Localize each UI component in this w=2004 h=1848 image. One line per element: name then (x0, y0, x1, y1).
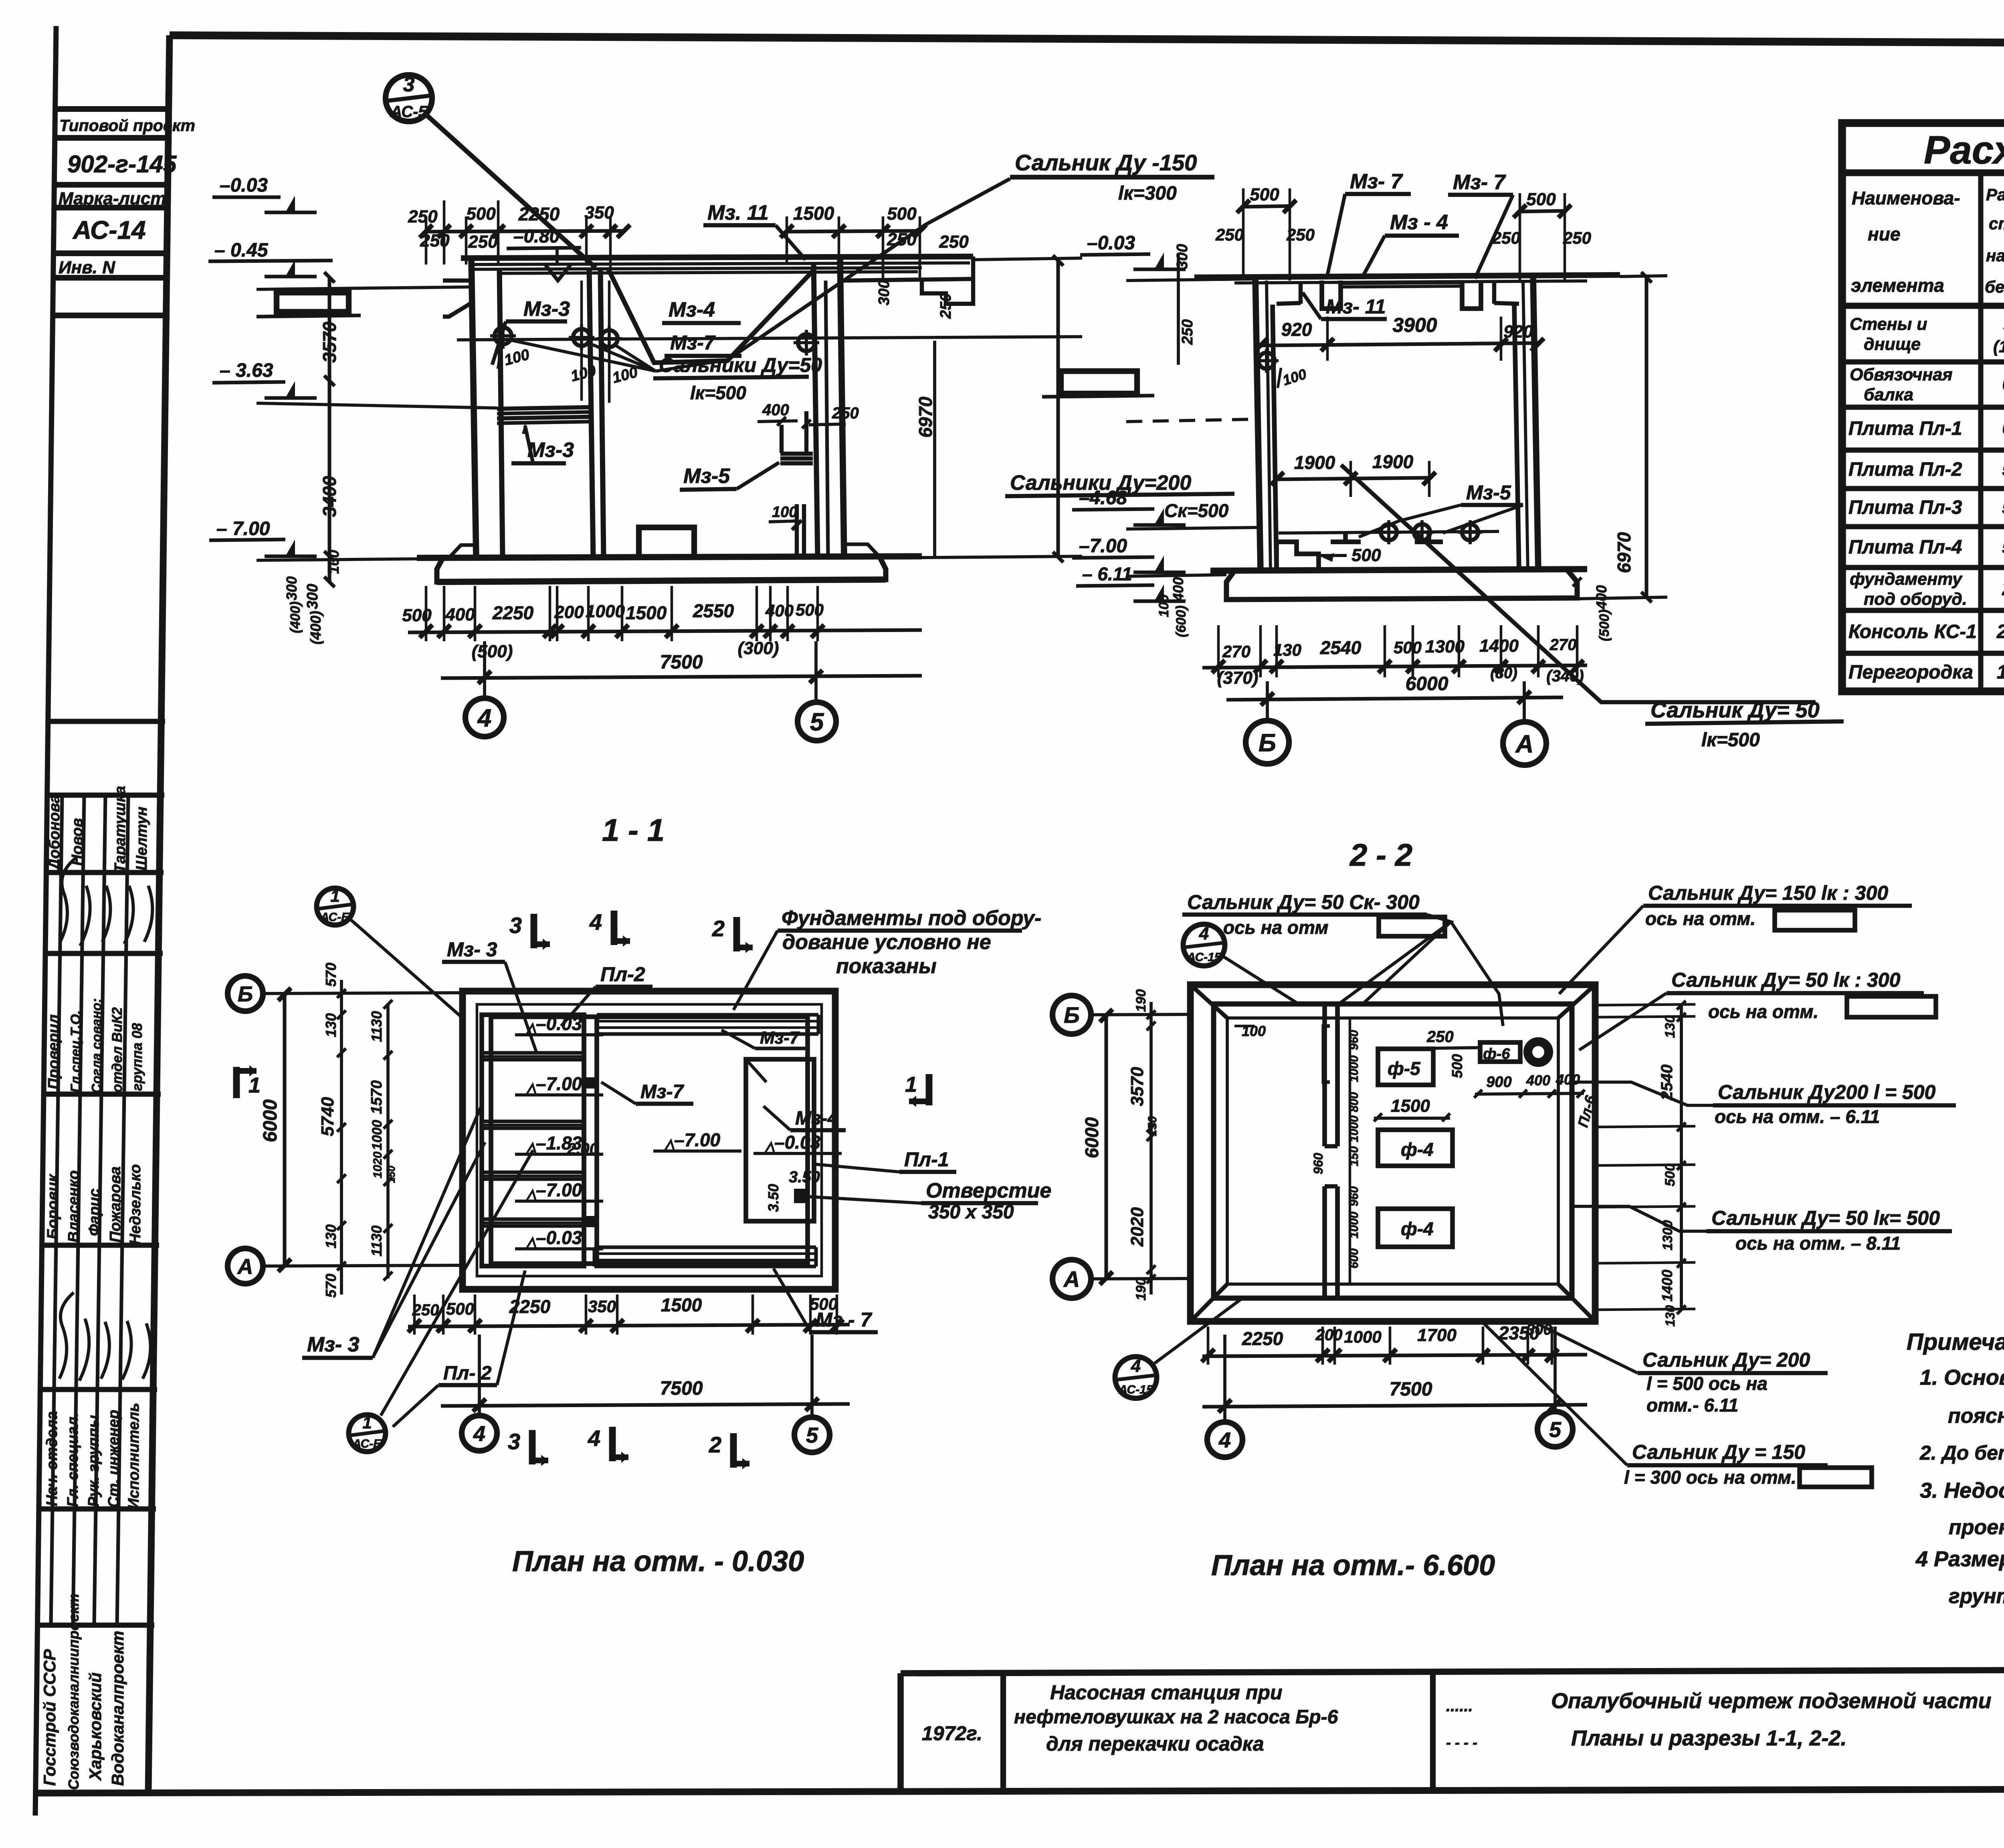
svg-text:3.50: 3.50 (765, 1184, 782, 1212)
svg-text:1. Основные требования: 1. Основные требования к бетону приведен… (1920, 1365, 2004, 1390)
svg-text:на 1м³: на 1м³ (1986, 246, 2004, 265)
svg-text:Опалубочный чертеж подземной: Опалубочный чертеж подземной части (1551, 1689, 1992, 1713)
svg-text:1500: 1500 (626, 602, 667, 623)
embedded plate Mz-3 band (497, 407, 589, 409)
section flags 1-1 (233, 1067, 240, 1098)
svg-text:500: 500 (1351, 545, 1381, 565)
svg-text:130: 130 (323, 1013, 339, 1037)
svg-text:270: 270 (1222, 642, 1250, 661)
section 2-2 view (1005, 170, 1844, 872)
svg-text:1500: 1500 (793, 203, 834, 224)
svg-text:бетона: бетона (1985, 277, 2004, 296)
svg-text:1900: 1900 (1372, 451, 1414, 472)
leader fan (506, 339, 656, 371)
svg-text:Власенко: Власенко (65, 1170, 82, 1242)
left dims plan2 (1104, 1015, 1108, 1279)
svg-text:57: 57 (2002, 459, 2004, 480)
materials table (1842, 123, 2004, 691)
floor pipe sleeve (795, 504, 799, 557)
svg-text:570: 570 (323, 963, 339, 987)
svg-text:350 х 350: 350 х 350 (928, 1202, 1014, 1223)
svg-text:–0.03: –0.03 (536, 1013, 582, 1034)
svg-text:Мз. 11: Мз. 11 (707, 201, 769, 224)
svg-text:6000: 6000 (1081, 1117, 1102, 1158)
svg-text:130: 130 (1663, 1305, 1677, 1327)
svg-text:800: 800 (1347, 1092, 1361, 1112)
svg-text:1: 1 (330, 887, 339, 905)
svg-text:1000: 1000 (1347, 1055, 1361, 1082)
svg-text:Примечания:: Примечания: (1907, 1329, 2004, 1355)
svg-text:ф-5: ф-5 (1388, 1058, 1421, 1079)
long leader to right sleeve (727, 179, 1010, 360)
svg-text:270: 270 (1549, 636, 1577, 654)
right dims plan2 (1680, 1004, 1683, 1311)
svg-text:Водоканалпроект: Водоканалпроект (108, 1631, 127, 1786)
svg-text:Стены и: Стены и (1850, 315, 1927, 334)
svg-text:–7.00: –7.00 (536, 1179, 582, 1200)
diagonal leader (1341, 465, 1816, 702)
svg-text:300: 300 (1174, 244, 1191, 269)
bottom slab (417, 556, 922, 558)
svg-text:3.50: 3.50 (789, 1168, 820, 1186)
svg-text:(400): (400) (307, 611, 324, 644)
svg-text:500: 500 (402, 606, 432, 625)
svg-text:1570: 1570 (368, 1080, 385, 1114)
svg-text:Б: Б (238, 982, 253, 1006)
svg-text:2: 2 (709, 1432, 721, 1457)
svg-text:Новов: Новов (69, 818, 86, 866)
svg-text:Мз- 3: Мз- 3 (447, 938, 497, 961)
svg-text:500: 500 (796, 600, 824, 619)
svg-text:АС-14: АС-14 (72, 216, 146, 244)
foundation f-4 lower (1378, 1209, 1452, 1247)
svg-text:350: 350 (584, 203, 614, 222)
left wall (471, 258, 476, 558)
leader from bubble 1 bottom (381, 1150, 533, 1416)
section 1-1 view (208, 73, 1214, 848)
svg-text:АС-Б: АС-Б (352, 1437, 382, 1450)
svg-text:Наименова-: Наименова- (1852, 188, 1960, 208)
svg-text:1300: 1300 (1425, 637, 1465, 656)
axis bubble 4 (465, 698, 504, 737)
svg-text:500: 500 (466, 204, 496, 224)
svg-text:Обвязочная: Обвязочная (1850, 365, 1953, 384)
title block (901, 1668, 2004, 1822)
svg-text:Госстрой СССР: Госстрой СССР (40, 1649, 59, 1786)
svg-text:Сальник Ду= 50 Ск- 300: Сальник Ду= 50 Ск- 300 (1187, 891, 1420, 913)
dim 7500 plan1 (441, 1404, 850, 1406)
svg-text:–0.03: –0.03 (220, 175, 268, 196)
svg-text:Отверстие: Отверстие (926, 1179, 1051, 1202)
svg-text:1130: 1130 (368, 1226, 385, 1256)
left vertical dims plan1 (283, 994, 286, 1266)
svg-text:2250: 2250 (518, 204, 560, 224)
svg-text:дование условно не: дование условно не (782, 931, 991, 954)
svg-text:2020: 2020 (1127, 1207, 1147, 1247)
svg-text:(400): (400) (288, 602, 303, 633)
bottom slab 2-2 (1210, 569, 1587, 571)
inner outline plan2 (1214, 1004, 1572, 1298)
svg-text:3570: 3570 (319, 321, 340, 363)
svg-text:Мз-5: Мз-5 (1466, 481, 1511, 504)
svg-text:500: 500 (1449, 1054, 1465, 1078)
svg-text:А: А (1515, 730, 1534, 758)
svg-text:Мз-7: Мз-7 (670, 331, 716, 354)
svg-text:(340): (340) (1546, 667, 1584, 685)
svg-text:400: 400 (1593, 585, 1610, 610)
svg-text:отдел ВиК2: отдел ВиК2 (109, 1007, 125, 1093)
svg-text:250: 250 (1215, 225, 1244, 244)
bottom dim chain (408, 630, 922, 632)
bottom dims 2-2 (1202, 665, 1587, 668)
svg-text:500: 500 (446, 1299, 474, 1318)
roof slab (461, 256, 973, 258)
left stamp strip (35, 26, 195, 1816)
svg-text:27: 27 (2002, 578, 2004, 600)
axis A line plan2 (1089, 1278, 1190, 1279)
svg-text:ось на отм. – 6.11: ось на отм. – 6.11 (1715, 1106, 1880, 1127)
svg-text:Мз-7: Мз-7 (640, 1081, 684, 1103)
axis line B (262, 993, 463, 994)
svg-text:Сальник Ду200 l = 500: Сальник Ду200 l = 500 (1718, 1081, 1936, 1103)
svg-text:Союзводоканалниипроект: Союзводоканалниипроект (65, 1594, 82, 1790)
svg-text:грунтовыми водами.: грунтовыми водами. (1949, 1585, 2004, 1608)
svg-text:100: 100 (772, 504, 797, 521)
plan view at -0.030 (463, 991, 842, 1289)
svg-text:– 7.00: – 7.00 (216, 518, 270, 539)
sleeves row 2-2 (1279, 531, 1499, 533)
svg-text:400: 400 (445, 605, 475, 624)
dashed wall centerlines (477, 1004, 822, 1276)
svg-text:500: 500 (1394, 638, 1422, 657)
svg-text:3: 3 (509, 913, 522, 938)
svg-text:Мз-4: Мз-4 (669, 298, 715, 321)
svg-text:3400: 3400 (319, 476, 340, 517)
axis bubble 1/AC-B top (317, 888, 354, 925)
svg-text:1500: 1500 (661, 1295, 702, 1315)
haunch trapezoid (608, 268, 814, 363)
svg-text:пояснительной записке.: пояснительной записке. (1948, 1404, 2004, 1428)
svg-text:Типовой проект: Типовой проект (59, 116, 195, 135)
svg-text:группа 08: группа 08 (129, 1023, 145, 1091)
foundation f-5 (1378, 1049, 1433, 1085)
axis line A (262, 1265, 463, 1266)
svg-text:Харьковский: Харьковский (86, 1672, 105, 1781)
svg-text:190: 190 (1133, 989, 1149, 1012)
svg-text:6000: 6000 (260, 1099, 281, 1142)
svg-text:150: 150 (1347, 1146, 1361, 1166)
svg-text:300: 300 (304, 584, 321, 609)
axis bubble A plan1 (228, 1248, 263, 1284)
axis B line plan2 (1089, 1014, 1190, 1015)
svg-text:960: 960 (1311, 1153, 1325, 1174)
svg-text:Сальник Ду= 150 lк : 300: Сальник Ду= 150 lк : 300 (1648, 882, 1888, 904)
partition wall (582, 1015, 586, 1266)
svg-text:–0.03: –0.03 (774, 1132, 821, 1153)
svg-text:ось на отм.: ось на отм. (1708, 1001, 1818, 1022)
svg-text:ось на отм: ось на отм (1223, 917, 1328, 938)
interior dim column (1349, 1018, 1351, 1284)
svg-text:Согла совано:: Согла совано: (89, 998, 104, 1093)
foundation f-4 upper (1378, 1130, 1452, 1166)
svg-text:отм.- 6.11: отм.- 6.11 (1646, 1395, 1738, 1416)
svg-text:250: 250 (468, 232, 498, 252)
svg-text:(300): (300) (738, 638, 779, 658)
svg-text:Нач. отдела: Нач. отдела (44, 1411, 61, 1506)
svg-text:500: 500 (1663, 1163, 1678, 1186)
svg-text:Сальник Ду= 50 lк= 500: Сальник Ду= 50 lк= 500 (1711, 1207, 1940, 1229)
svg-text:Фарис: Фарис (86, 1189, 103, 1236)
svg-text:ф-4: ф-4 (1401, 1139, 1434, 1160)
embedded plate Mz-5 step (780, 452, 813, 456)
svg-text:l = 300 ось на отм.: l = 300 ось на отм. (1624, 1467, 1796, 1488)
svg-text:5: 5 (1549, 1418, 1562, 1442)
svg-text:Мз-3: Мз-3 (527, 438, 574, 462)
svg-text:Фундаменты под обору-: Фундаменты под обору- (782, 907, 1041, 930)
blank level box 2-2 (1061, 371, 1137, 394)
left chamber (482, 1015, 584, 1266)
svg-text:Мз- 7: Мз- 7 (1350, 170, 1403, 193)
top slab band (597, 1013, 818, 1016)
top dimension chain (425, 231, 625, 232)
svg-text:7500: 7500 (1390, 1379, 1432, 1400)
svg-text:4: 4 (473, 1422, 485, 1446)
corner bevels (1190, 985, 1227, 1018)
svg-text:250: 250 (412, 1301, 439, 1319)
svg-text:1000: 1000 (1344, 1327, 1381, 1346)
svg-text:57: 57 (2002, 497, 2004, 518)
svg-text:–7.00: –7.00 (1079, 535, 1127, 557)
svg-text:элемента: элемента (1851, 275, 1944, 296)
svg-text:– 6.11: – 6.11 (1082, 563, 1132, 584)
svg-text:Плита Пл-1: Плита Пл-1 (1848, 418, 1962, 439)
svg-text:100: 100 (325, 550, 342, 574)
dims 920 3900 920 (1261, 343, 1538, 345)
svg-text:Консоль КС-1: Консоль КС-1 (1848, 621, 1977, 642)
svg-text:Сальник Ду= 50 lк : 300: Сальник Ду= 50 lк : 300 (1671, 969, 1901, 991)
svg-text:2. До бетонирования заложи: 2. До бетонирования заложить все закладн… (1919, 1442, 2004, 1464)
svg-text:(500): (500) (472, 642, 513, 661)
svg-text:Плита Пл-4: Плита Пл-4 (1848, 537, 1962, 558)
bubble 4/AC-15 top (1183, 924, 1225, 966)
left strip signature table (40, 721, 165, 1790)
svg-text:1700: 1700 (1417, 1325, 1457, 1345)
svg-text:500: 500 (810, 1295, 838, 1313)
svg-text:2250: 2250 (492, 602, 534, 623)
svg-text:250: 250 (408, 207, 438, 226)
slab right overhang (844, 279, 973, 281)
plate Pl-1 (746, 1059, 814, 1221)
svg-text:Расход: Расход (1986, 185, 2004, 204)
svg-text:130: 130 (1663, 1015, 1678, 1038)
svg-text:400: 400 (765, 601, 794, 620)
svg-text:Таратушка: Таратушка (112, 786, 129, 873)
svg-text:АС-15: АС-15 (1118, 1383, 1154, 1396)
svg-text:250: 250 (937, 293, 954, 319)
svg-text:Сальник Ду = 150: Сальник Ду = 150 (1632, 1441, 1805, 1463)
svg-text:6970: 6970 (915, 396, 936, 438)
svg-text:Плита Пл-3: Плита Пл-3 (1848, 497, 1962, 518)
svg-text:500: 500 (1526, 190, 1556, 209)
svg-text:2540: 2540 (1320, 637, 1362, 658)
svg-text:lк=500: lк=500 (1701, 729, 1760, 751)
notes (primechaniya) (1907, 1329, 2004, 1608)
svg-text:Плита Пл-2: Плита Пл-2 (1848, 459, 1962, 480)
svg-text:(80): (80) (1490, 665, 1517, 682)
left wall 2-2 (1255, 277, 1261, 571)
svg-text:3: 3 (508, 1429, 520, 1454)
bottom dims plan1 (408, 1325, 850, 1327)
svg-text:1: 1 (248, 1073, 261, 1097)
svg-text:- - - -: - - - - (1446, 1734, 1477, 1751)
svg-text:......: ...... (1446, 1697, 1473, 1715)
svg-text:АС-15: АС-15 (1186, 951, 1222, 964)
svg-text:900: 900 (1486, 1074, 1511, 1091)
svg-text:242: 242 (1996, 621, 2004, 642)
svg-text:6970: 6970 (1614, 532, 1634, 573)
right wall 2-2 (1533, 275, 1538, 571)
svg-text:150: 150 (1146, 1116, 1159, 1136)
svg-text:Инв. N: Инв. N (59, 258, 115, 277)
plan view at -6.600 (1190, 985, 1599, 1321)
svg-text:lк=300: lк=300 (1118, 183, 1177, 204)
svg-text:960: 960 (1347, 1186, 1361, 1206)
partition plan2 (1322, 1004, 1327, 1146)
svg-text:350: 350 (588, 1297, 616, 1316)
svg-text:(370): (370) (1217, 668, 1259, 688)
svg-text:57: 57 (2002, 537, 2004, 558)
svg-text:Шелтун: Шелтун (133, 807, 150, 870)
blank level box (277, 293, 349, 312)
innermost line plan2 (1227, 1018, 1558, 1284)
axis bubble 1/AC-B bottom (349, 1415, 386, 1452)
svg-text:1400: 1400 (1479, 636, 1519, 656)
axis bubble 4 plan1 (462, 1416, 497, 1451)
svg-text:Мз-7: Мз-7 (760, 1028, 800, 1048)
svg-text:Ст. инженер: Ст. инженер (105, 1410, 122, 1508)
right 6970 dim (1620, 276, 1667, 277)
svg-text:(107): (107) (1993, 337, 2004, 356)
svg-text:3: 3 (403, 73, 415, 96)
svg-text:4: 4 (588, 1426, 600, 1451)
svg-text:3. Недостающие отметки: 3. Недостающие отметки ставятся при прив… (1920, 1478, 2004, 1503)
svg-text:1020: 1020 (371, 1151, 384, 1178)
svg-text:2.00: 2.00 (567, 1140, 598, 1158)
svg-text:АС-Б: АС-Б (320, 911, 349, 924)
svg-text:–0.03: –0.03 (1087, 232, 1135, 254)
svg-text:ф-6: ф-6 (1483, 1046, 1510, 1062)
svg-text:План на отм. - 0.030: План на отм. - 0.030 (512, 1545, 804, 1577)
svg-text:Сальник Ду -150: Сальник Ду -150 (1015, 150, 1197, 175)
svg-text:ф-4: ф-4 (1401, 1218, 1434, 1239)
svg-text:5740: 5740 (318, 1097, 337, 1136)
svg-text:400: 400 (1556, 1071, 1580, 1088)
bottom slab band (594, 1245, 816, 1249)
svg-text:500: 500 (887, 204, 917, 224)
svg-text:Сальник Ду= 200: Сальник Ду= 200 (1642, 1349, 1810, 1371)
svg-text:Мз- 11: Мз- 11 (1326, 295, 1386, 318)
svg-text:1: 1 (362, 1413, 372, 1432)
svg-text:Мз- 3: Мз- 3 (307, 1333, 360, 1356)
svg-text:для перекачки осадка: для перекачки осадка (1046, 1733, 1264, 1755)
foundation f-6 (1480, 1042, 1520, 1062)
svg-text:1000: 1000 (370, 1120, 385, 1150)
dims 900 400 400 (1475, 1093, 1584, 1094)
svg-text:4: 4 (1218, 1428, 1231, 1452)
axis bubble B (1246, 721, 1289, 764)
svg-text:– 0.45: – 0.45 (214, 240, 269, 261)
svg-text:1972г.: 1972г. (922, 1722, 982, 1745)
svg-text:2550: 2550 (693, 600, 734, 621)
svg-text:6000: 6000 (1406, 673, 1448, 695)
svg-text:Ск=500: Ск=500 (1164, 500, 1229, 521)
axis bubble 5 (798, 702, 836, 741)
svg-text:Добонова: Добонова (46, 795, 63, 871)
axis bubble 3/AC-5 (386, 75, 432, 121)
svg-text:l = 500 ось на: l = 500 ось на (1646, 1373, 1768, 1394)
svg-text:Сальник Ду= 50: Сальник Ду= 50 (1650, 698, 1820, 722)
axis bubble 5 plan2 (1537, 1412, 1573, 1447)
svg-text:под оборуд.: под оборуд. (1864, 590, 1967, 609)
floor step (1277, 542, 1319, 571)
svg-text:Проверил: Проверил (45, 1014, 62, 1089)
svg-text:Боровик: Боровик (44, 1173, 61, 1239)
svg-text:1130: 1130 (368, 1011, 385, 1042)
bubble 4/AC-15 bottom (1115, 1357, 1157, 1398)
dim 7500 (483, 641, 486, 697)
outer outline plan2 (1190, 985, 1595, 1321)
svg-text:60: 60 (2002, 374, 2004, 395)
sleeve ring (1528, 1042, 1549, 1062)
svg-text:Пожарова: Пожарова (107, 1166, 124, 1242)
sleeve symbols (495, 327, 511, 344)
svg-text:4: 4 (1131, 1356, 1141, 1376)
svg-text:Сальники Ду=200: Сальники Ду=200 (1010, 471, 1191, 495)
svg-text:1400: 1400 (1659, 1270, 1675, 1302)
svg-text:ось на отм.: ось на отм. (1645, 908, 1756, 929)
svg-text:проекта.: проекта. (1949, 1516, 2004, 1539)
svg-text:130: 130 (323, 1224, 339, 1248)
svg-text:фундаменту: фундаменту (1850, 570, 1963, 589)
svg-text:Перегородка: Перегородка (1848, 662, 1973, 683)
svg-text:Б: Б (1064, 1002, 1080, 1028)
svg-text:показаны: показаны (836, 955, 937, 978)
Mz-5 embeds (1331, 539, 1361, 544)
svg-text:Расход: Расход (1924, 128, 2004, 172)
svg-text:(500): (500) (1597, 610, 1612, 641)
svg-text:2 - 2: 2 - 2 (1349, 837, 1412, 872)
svg-text:920: 920 (1503, 322, 1533, 341)
svg-text:Мз-3: Мз-3 (523, 297, 570, 321)
svg-text:600: 600 (1347, 1248, 1361, 1268)
partition wall (589, 269, 593, 558)
svg-text:А: А (1063, 1266, 1080, 1292)
foundation block (639, 527, 694, 557)
section flags top (531, 914, 537, 948)
svg-text:69: 69 (2002, 418, 2004, 439)
svg-text:250: 250 (1426, 1028, 1454, 1046)
svg-text:250: 250 (832, 404, 859, 422)
svg-text:7500: 7500 (660, 1378, 703, 1399)
svg-text:АС-5: АС-5 (390, 103, 427, 121)
svg-text:570: 570 (323, 1274, 339, 1298)
axis bubble A plan2 (1053, 1260, 1091, 1298)
wall inner line (491, 1017, 808, 1264)
svg-text:Пл-1: Пл-1 (904, 1148, 949, 1171)
svg-text:Пл-2: Пл-2 (600, 963, 645, 986)
svg-text:стали: стали (1989, 214, 2004, 233)
svg-text:4: 4 (1199, 924, 1209, 943)
